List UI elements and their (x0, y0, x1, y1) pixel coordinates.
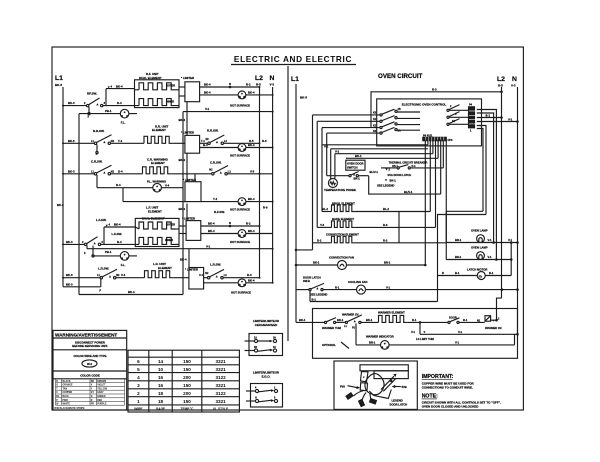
svg-text:PB-1: PB-1 (105, 250, 112, 254)
svg-text:PURPLE: PURPLE (97, 404, 107, 406)
svg-text:L2: L2 (497, 76, 505, 83)
svg-text:SEE LEGEND: SEE LEGEND (310, 293, 327, 297)
svg-text:V-1: V-1 (455, 341, 460, 345)
wire limiter to L2 (BK-4 / R-2) row1 (200, 82, 260, 88)
svg-text:BK-4: BK-4 (208, 229, 215, 233)
svg-text:TEMPERATURE PROBE: TEMPERATURE PROBE (324, 188, 356, 192)
svg-text:N: N (229, 82, 231, 86)
svg-text:B/W BLACK/WHITE STRIPE: B/W BLACK/WHITE STRIPE (55, 407, 86, 410)
warmer SV thermostat right (477, 316, 502, 330)
svg-text:5: 5 (137, 367, 140, 372)
svg-text:BK-3: BK-3 (66, 273, 73, 277)
svg-text:BL/V-1: BL/V-1 (404, 190, 413, 194)
svg-text:B-1: B-1 (455, 271, 460, 275)
svg-text:L2: L2 (255, 75, 263, 82)
svg-text:150: 150 (183, 359, 191, 364)
wire L1 to LF switch (63, 240, 84, 245)
svg-text:14: 14 (158, 359, 164, 364)
svg-text:BR-1: BR-1 (384, 261, 391, 265)
svg-text:B-1: B-1 (486, 113, 491, 117)
wire L1 to LR switch (63, 273, 100, 278)
svg-text:COLOR CODE: COLOR CODE (80, 374, 100, 378)
LS limit thermostat (411, 321, 519, 341)
oven door switch box (346, 160, 365, 170)
svg-text:3321: 3321 (215, 383, 226, 388)
svg-text:D-4: D-4 (116, 183, 121, 187)
svg-text:BK-3: BK-3 (66, 240, 73, 244)
element L.R. unit element (145, 262, 189, 278)
svg-text:R-3: R-3 (247, 273, 252, 277)
svg-text:SVA DOOR LATCH: SVA DOOR LATCH (388, 173, 412, 177)
svg-text:DOOR LATCH: DOOR LATCH (390, 403, 408, 407)
svg-text:CONNECTIONS TO CONDUIT WIRE.: CONNECTIONS TO CONDUIT WIRE. (422, 386, 473, 390)
wire sub-box left (295, 243, 313, 251)
svg-text:V-1: V-1 (205, 107, 210, 111)
pilot line PB-1 F.L. row1 (79, 109, 137, 125)
svg-text:16: 16 (158, 383, 164, 388)
svg-text:BK-1: BK-1 (299, 318, 306, 322)
svg-text:L.F.SW.: L.F.SW. (112, 232, 123, 236)
svg-text:ELECTRIC AND ELECTRIC: ELECTRIC AND ELECTRIC (234, 55, 352, 64)
svg-text:BK-4: BK-4 (248, 143, 255, 147)
hot surface indicator row4 (201, 229, 273, 244)
wire N rail right (517, 87, 519, 334)
svg-text:OUTER: OUTER (166, 84, 175, 88)
svg-text:BK-3: BK-3 (68, 169, 75, 173)
wire R-5 to L2 rail row2 (224, 139, 267, 144)
svg-text:V-1: V-1 (386, 285, 391, 289)
svg-text:GRAY: GRAY (97, 391, 104, 394)
svg-text:WHITE: WHITE (63, 404, 71, 406)
svg-text:6: 6 (137, 359, 140, 364)
svg-text:150: 150 (183, 383, 191, 388)
svg-text:R-1: R-1 (335, 285, 340, 289)
svg-text:BK-1: BK-1 (313, 261, 320, 265)
svg-text:GY: GY (91, 392, 95, 394)
svg-text:R-5: R-5 (249, 139, 254, 143)
svg-text:N: N (270, 75, 275, 82)
optional note (322, 342, 349, 349)
svg-text:CONVECTION FAN: CONVECTION FAN (329, 256, 354, 260)
switch R.R.SW. right (200, 129, 228, 145)
wire bus D to door switch (327, 133, 349, 176)
wire L1 to RR switch (63, 139, 94, 144)
wire D-4 to CR element (111, 169, 143, 174)
svg-text:R-6: R-6 (263, 206, 268, 210)
wire element right bus (399, 212, 446, 243)
svg-text:3122: 3122 (215, 391, 226, 396)
svg-text:BK-4: BK-4 (116, 84, 123, 88)
svg-text:WARMER INDICATOR: WARMER INDICATOR (366, 334, 394, 338)
relay contact K2 (322, 122, 420, 129)
svg-text:ELEMENT: ELEMENT (148, 209, 162, 213)
svg-text:3321: 3321 (215, 359, 226, 364)
svg-text:* LIMITER: * LIMITER (181, 76, 194, 80)
svg-text:* LIMITER: * LIMITER (182, 217, 195, 221)
oven lamp 2 (446, 246, 512, 261)
svg-text:HOT SURFACE: HOT SURFACE (230, 154, 250, 158)
wire L1 rail left (62, 87, 64, 287)
svg-text:BK-5: BK-5 (300, 96, 307, 100)
svg-text:BK-4: BK-4 (204, 83, 211, 87)
svg-text:R-3: R-3 (432, 87, 437, 91)
svg-text:V-4: V-4 (199, 274, 203, 277)
limiter row2 (181, 130, 200, 153)
wire V-1 row1 (183, 107, 273, 111)
svg-text:BK-4: BK-4 (204, 90, 211, 94)
element L.F. dual element (135, 206, 179, 247)
oven lamp 1 (446, 229, 519, 244)
svg-text:ELEMENT: ELEMENT (152, 128, 166, 132)
svg-text:V-1: V-1 (335, 150, 340, 154)
svg-text:BK-3: BK-3 (66, 282, 73, 286)
svg-text:R-5: R-5 (498, 84, 503, 88)
IMPORTANT note (422, 374, 475, 390)
svg-text:BK-4: BK-4 (248, 229, 255, 233)
svg-text:ELEMENT: ELEMENT (158, 266, 172, 270)
svg-text:O: O (56, 385, 58, 387)
svg-text:OVEN DOOR CLOSED AND UNLOCKED: OVEN DOOR CLOSED AND UNLOCKED (422, 404, 480, 408)
svg-text:WARMER THM: WARMER THM (322, 326, 342, 330)
svg-text:ELECTRONIC OVEN CONTROL: ELECTRONIC OVEN CONTROL (402, 103, 447, 107)
svg-text:R.R.SW.: R.R.SW. (93, 129, 105, 133)
door latch switch B (296, 275, 327, 301)
svg-text:L1: L1 (291, 76, 299, 83)
hot surface indicator row1 (200, 90, 273, 107)
svg-text:BK-1: BK-1 (366, 318, 373, 322)
relay contact group right (447, 105, 472, 133)
limiter row5 (180, 249, 204, 289)
limiter row1 (179, 76, 200, 102)
svg-text:3: 3 (137, 383, 140, 388)
wire L2 rail left (259, 87, 261, 278)
svg-text:D: D (442, 271, 444, 275)
svg-text:WARMER SV.: WARMER SV. (342, 312, 359, 316)
warning box (53, 330, 127, 410)
switch warmer SV (336, 312, 362, 345)
svg-text:150: 150 (183, 399, 191, 404)
wire connector pin drops (425, 140, 446, 265)
node N (right) (511, 76, 517, 88)
convection fan (295, 256, 427, 270)
svg-text:B-1: B-1 (489, 271, 494, 275)
wire R-3 to L2 rail row5 (223, 273, 259, 278)
svg-text:BR-1: BR-1 (455, 238, 462, 242)
svg-text:16: 16 (158, 375, 164, 380)
wire T-4 hot surface row3 (123, 188, 273, 212)
svg-text:HOT SURFACE: HOT SURFACE (230, 103, 250, 107)
switch L.R.SW. right (199, 262, 227, 279)
svg-text:D-2: D-2 (317, 239, 322, 243)
wire bottom BK-4 bus (79, 294, 183, 296)
svg-text:200: 200 (183, 391, 191, 396)
svg-text:5VB: 5VB (402, 385, 407, 389)
svg-text:G: G (91, 396, 93, 398)
wire RF main to inner coil R-4 (103, 101, 139, 106)
switch C.R.SW. right (209, 160, 231, 175)
svg-text:R-6: R-6 (262, 139, 267, 143)
connector P6 43J1 (423, 135, 453, 143)
svg-text:HOT SURFACE: HOT SURFACE (230, 240, 250, 244)
svg-text:R.F.SW.: R.F.SW. (214, 210, 225, 214)
node L2 (left section) (255, 75, 263, 87)
wire N rail left (272, 87, 274, 283)
svg-text:200: 200 (183, 375, 191, 380)
svg-text:BK-4: BK-4 (179, 158, 186, 162)
electronic oven control box (377, 99, 482, 146)
svg-text:BK-4: BK-4 (248, 197, 255, 201)
svg-text:R-2: R-2 (246, 222, 251, 226)
svg-text:BK-6: BK-6 (68, 139, 75, 143)
title ELECTRIC AND ELECTRIC (231, 55, 356, 65)
svg-text:BR-1: BR-1 (455, 255, 462, 259)
relay contact K4 (327, 127, 420, 134)
svg-text:F.L.: F.L. (121, 121, 126, 125)
warmer indicator (356, 334, 515, 349)
svg-text:WARNING/AVERTISSEMENT: WARNING/AVERTISSEMENT (55, 333, 117, 338)
switch L.F.SW. (82, 218, 122, 257)
svg-text:WARMER SV.: WARMER SV. (485, 326, 502, 330)
svg-text:V-4: V-4 (165, 183, 170, 187)
svg-text:BK-4: BK-4 (208, 222, 215, 226)
svg-text:V-1: V-1 (458, 330, 463, 334)
svg-text:PB-1: PB-1 (105, 109, 112, 113)
cooling fan (323, 280, 519, 294)
svg-text:BR-1: BR-1 (369, 341, 376, 345)
svg-text:V-1: V-1 (488, 255, 493, 259)
element bake (317, 217, 399, 227)
switch RF.SW. (84, 89, 106, 119)
junction dots left rails (62, 86, 274, 284)
section divider (287, 66, 289, 341)
svg-text:GAGE: GAGE (156, 407, 165, 411)
svg-text:INNER: INNER (166, 100, 174, 104)
wire L1 to CR switch (63, 169, 94, 174)
svg-text:N: N (229, 221, 231, 225)
wire BK-3 lower to switch P (63, 279, 101, 293)
svg-text:COOLING FAN: COOLING FAN (348, 280, 367, 284)
limiter row3 (183, 174, 201, 202)
wire LF upper branch BK-4 (104, 223, 135, 227)
svg-text:L.R.SW.: L.R.SW. (98, 266, 109, 270)
svg-text:BK-4: BK-4 (179, 207, 186, 211)
wire V-4 to LR element (116, 273, 145, 278)
node L2 (right) (497, 76, 505, 88)
svg-text:R-4: R-4 (117, 240, 122, 244)
color code table (55, 379, 125, 410)
wire V-1 row4 (87, 245, 273, 249)
svg-text:DUAL ELEMENT: DUAL ELEMENT (139, 76, 162, 80)
svg-text:BR: BR (91, 381, 95, 383)
wire limiter chain bus (179, 102, 188, 221)
svg-text:BK-4: BK-4 (179, 118, 186, 122)
svg-text:BK-4: BK-4 (114, 223, 121, 227)
element convection (313, 233, 400, 243)
svg-text:BK-6: BK-6 (57, 203, 64, 207)
svg-text:BK-4: BK-4 (248, 278, 255, 282)
svg-text:BLUE: BLUE (63, 396, 70, 398)
svg-text:THERMAL CIRCUIT BREAKER: THERMAL CIRCUIT BREAKER (389, 161, 428, 165)
svg-text:BK-4: BK-4 (180, 258, 187, 262)
svg-text:CP3: CP3 (448, 139, 453, 142)
svg-text:T-4: T-4 (118, 139, 122, 143)
element C.R. warming element (143, 157, 212, 174)
svg-text:L.R.SW.: L.R.SW. (210, 262, 221, 266)
wire V-1 strip to N (477, 117, 519, 122)
NOTE note (422, 394, 501, 409)
svg-text:SW.B: SW.B (303, 279, 310, 283)
svg-text:BK-5: BK-5 (55, 83, 62, 87)
wire R-3 routing over control (371, 87, 503, 127)
switch C.R.SW. (91, 159, 115, 187)
SVA door latch (377, 169, 411, 188)
svg-text:V-1: V-1 (508, 238, 513, 242)
wire RF upper branch BK-4 (106, 84, 135, 88)
wire B-1 latch lower (310, 297, 438, 301)
svg-text:BK-1: BK-1 (337, 318, 344, 322)
svg-text:OPTIONAL: OPTIONAL (322, 343, 336, 347)
svg-text:5VA: 5VA (340, 384, 345, 388)
svg-text:P: P (96, 152, 98, 156)
svg-text:W-2: W-2 (87, 362, 93, 366)
wire BL/V-1 lower (369, 176, 441, 194)
relay contact K3 (313, 108, 421, 116)
svg-text:RED: RED (97, 400, 102, 402)
node L1 (left section) (55, 75, 63, 87)
svg-text:BK-4: BK-4 (248, 90, 255, 94)
wire T-4 to RR element (111, 139, 145, 144)
switch oven door (349, 170, 378, 180)
svg-text:3A: 3A (452, 120, 455, 123)
svg-text:OVEN DOOR: OVEN DOOR (347, 162, 363, 166)
wire limiter to L2 BK-4 / R-2 row4 (201, 221, 260, 228)
svg-text:P.L. WARNING: P.L. WARNING (147, 179, 166, 183)
svg-text:GREEN: GREEN (97, 396, 106, 398)
svg-text:R-1: R-1 (463, 318, 468, 322)
svg-text:V-1: V-1 (488, 238, 493, 242)
svg-text:OVEN LAMP: OVEN LAMP (471, 229, 488, 233)
switch L.R.SW. (97, 266, 120, 279)
wire V-3 to N rail row3 (227, 169, 272, 174)
svg-text:* LIMITER: * LIMITER (181, 130, 194, 134)
wire pilot bus vertical (78, 114, 80, 295)
svg-text:D-4: D-4 (118, 169, 123, 173)
wire V-1 bus A (313, 115, 428, 243)
svg-text:V-3: V-3 (250, 169, 255, 173)
svg-text:BK-4: BK-4 (128, 290, 135, 294)
svg-text:Y-3: Y-3 (320, 223, 325, 227)
svg-text:WARMER ELEMENT: WARMER ELEMENT (378, 311, 405, 315)
svg-text:TAN: TAN (63, 387, 68, 390)
svg-text:SWITCH: SWITCH (347, 166, 358, 170)
svg-text:R-2: R-2 (246, 83, 251, 87)
wire LF main R-4 (101, 240, 139, 245)
svg-text:BL-2: BL-2 (383, 207, 389, 211)
wire V-1 bus B (317, 121, 433, 227)
svg-text:2: 2 (137, 391, 140, 396)
svg-text:BK-1: BK-1 (390, 178, 397, 182)
svg-text:B-1: B-1 (312, 297, 317, 301)
svg-text:V-1: V-1 (411, 330, 416, 334)
element R.R. unit element (144, 124, 185, 143)
svg-text:VIOLET: VIOLET (97, 385, 106, 387)
svg-text:DOOR LATCH: DOOR LATCH (303, 275, 321, 279)
svg-text:BL/V-1: BL/V-1 (370, 170, 379, 174)
svg-text:LS LIMIT THM: LS LIMIT THM (416, 337, 435, 341)
wire L2 to warmer switch (497, 298, 502, 320)
svg-text:R-2: R-2 (383, 239, 388, 243)
svg-text:P: P (99, 289, 101, 293)
svg-text:OVEN CIRCUIT: OVEN CIRCUIT (378, 73, 423, 80)
svg-text:BLACK: BLACK (63, 380, 71, 383)
svg-text:V-4: V-4 (121, 273, 126, 277)
wire B-1 strip to L2 (477, 113, 503, 118)
svg-text:R-3: R-3 (383, 223, 388, 227)
svg-text:V-3: V-3 (270, 83, 275, 87)
svg-text:WIRE: WIRE (134, 407, 142, 411)
svg-text:R.R.SW.: R.R.SW. (207, 129, 219, 133)
switch warmer door (448, 316, 485, 324)
svg-text:18: 18 (158, 399, 164, 404)
limiter row4 (179, 210, 225, 240)
svg-text:R-4: R-4 (117, 101, 122, 105)
svg-text:150: 150 (183, 367, 191, 372)
svg-text:LEGEND: LEGEND (392, 399, 403, 403)
element broil (322, 145, 428, 212)
svg-text:2B: 2B (398, 108, 401, 111)
svg-text:V-3: V-3 (511, 84, 516, 88)
element R.F. dual element (135, 72, 180, 108)
svg-text:F.L.: F.L. (121, 263, 126, 267)
wire L1 into warmer (296, 318, 325, 322)
hot surface indicator row5 (204, 278, 273, 294)
svg-text:CERAMASPEED: CERAMASPEED (255, 323, 278, 327)
svg-text:E.G.O.: E.G.O. (262, 375, 271, 379)
svg-text:C.R.SW.: C.R.SW. (91, 159, 103, 163)
svg-text:BK-1: BK-1 (355, 154, 362, 158)
svg-text:B-4: B-4 (203, 143, 208, 147)
wire L1 rail right (295, 84, 297, 322)
temperature probe (324, 149, 356, 192)
svg-text:PINK: PINK (63, 400, 69, 402)
border frame (52, 47, 523, 410)
latch motor (438, 243, 512, 280)
svg-text:3321: 3321 (215, 399, 226, 404)
wire V-1 return bus vertical (182, 112, 184, 295)
svg-text:18: 18 (158, 391, 164, 396)
node N (left section) (270, 75, 275, 87)
svg-text:N: N (512, 76, 517, 83)
svg-text:4: 4 (137, 375, 140, 380)
svg-text:ELEMENT: ELEMENT (151, 161, 165, 165)
svg-text:COLOR WIRE AND TYPE: COLOR WIRE AND TYPE (74, 354, 107, 358)
svg-text:OUTER: OUTER (166, 223, 175, 227)
element warmer (361, 311, 448, 323)
svg-text:R-1: R-1 (412, 318, 417, 322)
svg-text:V-1: V-1 (508, 117, 513, 121)
node L1 (right) (291, 76, 307, 100)
svg-text:R-5: R-5 (256, 83, 261, 87)
svg-text:LATCH MOTOR: LATCH MOTOR (467, 267, 487, 271)
svg-text:YELLOW: YELLOW (97, 388, 108, 390)
svg-text:COPPER: COPPER (63, 392, 73, 394)
svg-text:3321: 3321 (215, 367, 226, 372)
thermal circuit breaker (381, 161, 443, 169)
svg-text:L1: L1 (55, 75, 63, 82)
svg-text:TEMP.°C: TEMP.°C (181, 407, 195, 411)
svg-text:T-4: T-4 (213, 197, 217, 201)
svg-text:UL STYLE: UL STYLE (213, 407, 228, 411)
